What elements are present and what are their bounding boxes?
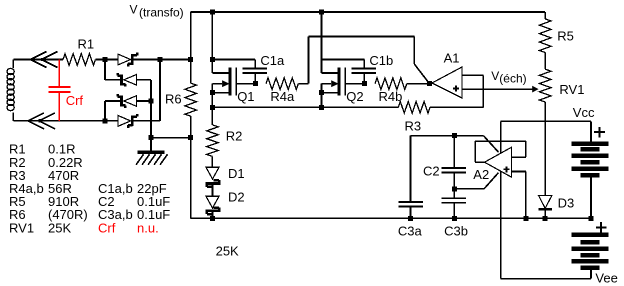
svg-text:R4b: R4b (379, 89, 403, 104)
svg-text:R1: R1 (78, 36, 95, 51)
svg-text:V: V (130, 2, 138, 16)
wire Vminus decoupling run (454, 188, 484, 190)
label V(transfo) (130, 2, 184, 19)
label Q1 (237, 89, 254, 104)
wire bottom node to diode 4 (105, 120, 118, 122)
wire coil bottom to diode node (13, 120, 105, 122)
wire R1 to node (96, 59, 106, 61)
resistor R1 (63, 54, 96, 66)
svg-text:C1b: C1b (369, 53, 393, 68)
wire diode 4 to right bus (134, 120, 160, 122)
value table (9, 142, 170, 236)
arrow chevrons top (RF coupling) (31, 52, 58, 68)
node ground junction (149, 135, 154, 140)
arrow chevrons bottom (RF coupling) (28, 113, 55, 129)
node Q1 source (210, 90, 215, 95)
node diode right bus top (158, 57, 163, 62)
svg-text:(éch): (éch) (499, 71, 526, 85)
wire battery Vcc to ground rail (590, 177, 592, 218)
wire diode right bus (159, 60, 161, 121)
node top rail / Q2 drain branch (319, 10, 324, 15)
wire R3 to A1 minus loop (430, 75, 483, 107)
label RV1 (559, 82, 584, 97)
label C1a (260, 53, 285, 68)
node D2 ground (210, 216, 215, 221)
svg-text:R4a: R4a (270, 89, 295, 104)
wire node down to diode 3 cathode (105, 101, 120, 121)
transistor Q2 (322, 60, 365, 108)
wire diagonal to A2 V- pin (484, 173, 498, 189)
diode D1 (schottky, down) (206, 167, 221, 187)
node D3 ground (543, 216, 548, 221)
diode clip 4 (right, schottky) (118, 114, 137, 128)
label Crf (66, 93, 84, 108)
wire Q2 drain branch down (321, 12, 323, 60)
label D3 (558, 196, 575, 211)
svg-text:D1: D1 (228, 166, 245, 181)
wire Vplus decoupling run (411, 135, 484, 137)
resistor R3 (398, 102, 430, 114)
svg-text:C1a: C1a (260, 53, 285, 68)
wire diode 3 anode to inner bus (137, 100, 152, 102)
svg-text:Q2: Q2 (346, 89, 363, 104)
svg-text:Crf: Crf (66, 93, 84, 108)
svg-text:(transfo): (transfo) (139, 6, 184, 20)
svg-text:R2: R2 (226, 128, 243, 143)
wire R6 top lead (190, 60, 192, 84)
node Q1 source bottom (210, 105, 215, 110)
wire R5 to RV1 (544, 53, 546, 70)
svg-text:R3: R3 (405, 118, 422, 133)
label Q2 (346, 89, 363, 104)
node Q2 source bottom (319, 105, 324, 110)
node Q1 gate (253, 81, 258, 86)
svg-text:V: V (491, 69, 499, 83)
wire D2 to rail (212, 212, 214, 218)
wire A2 plus input to ground rail (512, 172, 526, 219)
label R2 (226, 128, 243, 143)
node C3b ground (452, 216, 457, 221)
wire feedback diagonal to A1 output (414, 64, 429, 84)
diode clip 2 (left, schottky) (118, 73, 137, 87)
wire A2 V- supply pin to Vee (500, 171, 502, 278)
label A1 (444, 51, 460, 66)
label D1 (228, 166, 245, 181)
wire R2 to D1 (211, 156, 213, 167)
label D2 (228, 190, 245, 205)
wire ground node to R6 bottom (151, 137, 191, 139)
node top rail / Q1 drain branch (210, 10, 215, 15)
svg-text:Q1: Q1 (237, 89, 254, 104)
label R6 (165, 91, 182, 106)
node Q2 gate (362, 81, 367, 86)
node after R1 (103, 57, 108, 62)
svg-text:R6: R6 (165, 91, 182, 106)
label R3 (405, 118, 422, 133)
node R6 bottom (188, 135, 193, 140)
svg-text:Crf: Crf (98, 220, 116, 235)
wire inner bus (150, 80, 152, 138)
label Vee (595, 270, 617, 285)
node battery ground rail (589, 216, 594, 221)
label C2 (423, 164, 440, 179)
wire node down to diode 2 cathode (105, 60, 120, 80)
label R1 (78, 36, 95, 51)
resistor R5 (539, 19, 551, 53)
node A2 plus ground (523, 216, 528, 221)
op-amp A2 (485, 147, 512, 177)
svg-text:Vcc: Vcc (573, 105, 595, 120)
wire coil top to R1 (13, 59, 63, 61)
capacitor C1b (322, 60, 376, 84)
node C3a ground (408, 216, 413, 221)
wire diagonal to A2 V+ pin (483, 136, 498, 153)
ground (136, 138, 168, 165)
wire RV1 down to D3 (544, 102, 546, 196)
diode D2 (schottky, down) (206, 196, 221, 214)
wire A2 V+ supply pin (500, 121, 502, 153)
wire Vcc rail (501, 120, 591, 122)
transistor Q1 (212, 60, 255, 108)
wire top rail to R5 (544, 12, 546, 19)
resistor R6 (185, 83, 197, 116)
node Q2 source (319, 90, 324, 95)
svg-text:R5: R5 (557, 29, 574, 44)
wire D1 to D2 (212, 185, 214, 196)
svg-text:n.u.: n.u. (137, 220, 159, 235)
label R4b (379, 89, 403, 104)
capacitor C3b (441, 189, 466, 219)
wire V(transfo) top rail (191, 11, 546, 13)
wire A2 output feedback loop (475, 141, 526, 162)
wire R4b to A1 output (407, 83, 430, 85)
wire Vee bottom run (501, 278, 591, 280)
svg-text:D2: D2 (228, 190, 245, 205)
svg-text:C3b: C3b (444, 224, 468, 239)
resistor R4b (375, 78, 407, 90)
label Vcc (573, 105, 595, 120)
plus sign Vcc battery (594, 127, 605, 138)
wire diode 1 to right bus (134, 59, 191, 61)
svg-text:A1: A1 (444, 51, 460, 66)
arrow RV1 wiper (532, 86, 538, 93)
capacitor Crf (red) (49, 60, 71, 121)
label V(ech) (491, 69, 526, 85)
wire Q1 drain branch down (211, 12, 213, 60)
diode D3 (539, 196, 552, 219)
svg-text:25K: 25K (216, 243, 239, 258)
label A2 (473, 167, 489, 182)
capacitor C1a (212, 60, 266, 84)
wire source row (212, 106, 398, 108)
op-amp A1 (432, 67, 462, 98)
battery Vee (572, 235, 609, 268)
plus sign Vee battery (596, 222, 607, 232)
svg-text:RV1: RV1 (9, 220, 34, 235)
svg-text:A2: A2 (473, 167, 489, 182)
capacitor C2 (441, 136, 466, 189)
wire V(transfo) branch down to diode node (190, 12, 192, 60)
resistor R4a (266, 78, 298, 90)
svg-text:25K: 25K (48, 220, 71, 235)
svg-text:D3: D3 (558, 196, 575, 211)
node C2 bottom (452, 186, 457, 191)
wire ground rail (191, 217, 591, 219)
node C2 top (452, 133, 457, 138)
label C3a (398, 224, 423, 239)
capacitor C3a (398, 136, 423, 219)
battery Vcc (572, 144, 609, 176)
diode clip 3 (left, schottky) (118, 94, 137, 108)
node Q1 drain (210, 57, 215, 62)
node inner bus / diode 3 (149, 99, 154, 104)
svg-text:C2: C2 (423, 164, 440, 179)
label C1b (369, 53, 393, 68)
wire diode 2 anode to inner bus (137, 79, 152, 81)
node V(transfo)/R6 (188, 57, 193, 62)
label R5 (557, 29, 574, 44)
wire Vcc rail to battery (590, 121, 592, 141)
wire A1 plus input to RV1 wiper (462, 88, 534, 90)
inductor L1 (pickup coil) (7, 60, 14, 121)
label C3b (444, 224, 468, 239)
wire node to diode 1 (105, 59, 118, 61)
svg-text:Vee: Vee (595, 270, 617, 285)
svg-text:C3a: C3a (398, 224, 423, 239)
node A1 output (427, 81, 432, 86)
resistor R2 (207, 125, 219, 156)
wire R6 node down to ground rail (190, 138, 192, 219)
diode clip 1 (right, schottky) (118, 53, 137, 67)
node bottom-left (103, 118, 108, 123)
potentiometer RV1 (539, 69, 551, 102)
svg-text:RV1: RV1 (559, 82, 584, 97)
wire Q1 source to R2 (211, 107, 213, 125)
label R4a (270, 89, 295, 104)
wire feedback top run (309, 37, 415, 65)
wire R6 bottom lead (190, 116, 192, 138)
wire battery Vee bottom (590, 270, 592, 279)
label 25K (216, 243, 239, 258)
wire R4a to feedback corner (298, 37, 308, 84)
